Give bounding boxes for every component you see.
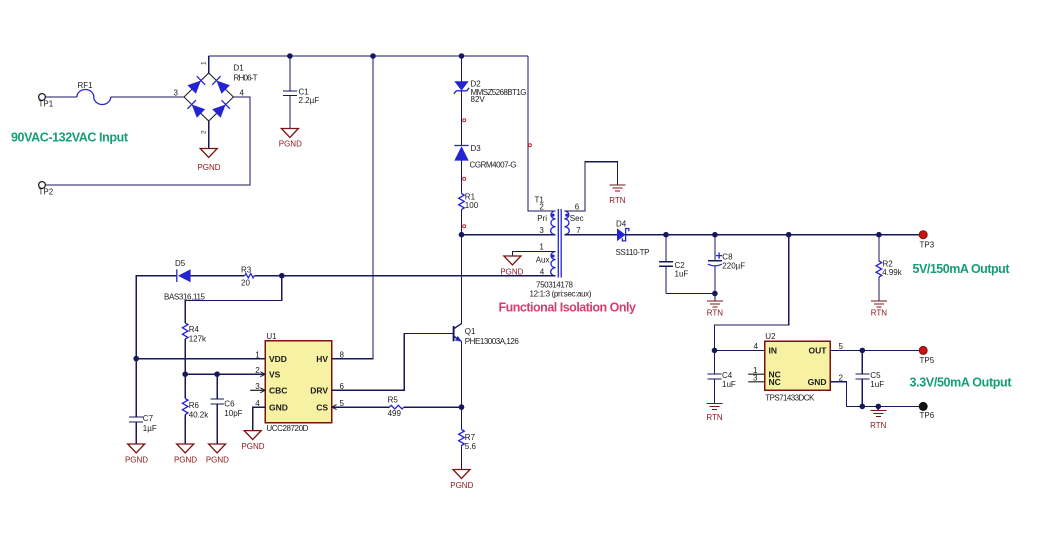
svg-text:1uF: 1uF: [870, 380, 884, 389]
wire U2 GND to TP6: [830, 382, 920, 407]
wire CS to R5: [332, 406, 390, 408]
svg-text:IN: IN: [769, 346, 778, 356]
svg-text:1µF: 1µF: [143, 424, 157, 433]
ground PGND bridge: [197, 149, 220, 173]
resistor R5: [388, 395, 404, 418]
capacitor C2: [659, 235, 688, 294]
wire bridge pin 4 to TP2: [46, 97, 250, 185]
pin NC1 stub: [748, 373, 764, 375]
svg-text:NC: NC: [769, 377, 781, 387]
capacitor C6: [210, 374, 242, 444]
svg-text:RTN: RTN: [871, 308, 888, 317]
svg-text:SS110-TP: SS110-TP: [616, 248, 650, 257]
svg-text:C7: C7: [143, 414, 154, 423]
svg-text:TP3: TP3: [920, 240, 935, 249]
wire VS node to U1: [185, 373, 265, 375]
wire bridge pin 2 to ground: [208, 121, 210, 149]
svg-text:PGND: PGND: [241, 442, 264, 451]
test point TP3: [919, 231, 935, 250]
svg-text:RTN: RTN: [870, 421, 887, 430]
regulator U2: [753, 332, 844, 402]
svg-text:PGND: PGND: [197, 163, 220, 172]
svg-text:TP2: TP2: [39, 188, 54, 197]
junction C6 top: [214, 371, 220, 377]
svg-text:82V: 82V: [471, 95, 486, 104]
svg-text:RTN: RTN: [707, 308, 724, 317]
svg-text:5.6: 5.6: [465, 442, 477, 451]
junction C4: [712, 348, 718, 354]
svg-text:PGND: PGND: [206, 455, 229, 464]
capacitor C4: [708, 350, 736, 403]
svg-text:OUT: OUT: [809, 346, 828, 356]
junction VS node: [182, 371, 188, 377]
svg-text:1: 1: [201, 61, 208, 65]
svg-text:VDD: VDD: [269, 354, 287, 364]
svg-text:Pri: Pri: [537, 214, 547, 223]
wire U1 GND pin to ground: [253, 407, 266, 431]
svg-text:2: 2: [539, 202, 544, 211]
svg-text:8: 8: [340, 351, 345, 360]
svg-text:D4: D4: [616, 220, 627, 229]
controller U1: [255, 332, 344, 433]
test point TP6: [919, 402, 935, 420]
wire HV riser: [332, 56, 373, 359]
svg-text:CGRM4007-G: CGRM4007-G: [470, 160, 517, 169]
ground RTN C8: [707, 301, 724, 317]
wire to RTN: [877, 406, 879, 410]
svg-text:2: 2: [201, 130, 208, 134]
svg-text:R4: R4: [189, 325, 200, 334]
5V rail wire: [625, 234, 920, 236]
wire primary node to T1 pin 3: [462, 234, 556, 236]
capacitor C7: [129, 359, 157, 444]
wire D3 to R1: [461, 161, 463, 194]
resistor R1: [459, 192, 479, 210]
svg-text:4: 4: [240, 89, 245, 98]
wire tap to R4: [185, 276, 282, 323]
svg-text:TP6: TP6: [920, 411, 935, 420]
junction C5 bottom: [860, 404, 866, 410]
svg-text:1: 1: [539, 242, 544, 251]
junction C5 top: [860, 348, 866, 354]
zener diode D2: [454, 79, 527, 104]
junction R2: [876, 232, 882, 238]
pin marker: [463, 177, 466, 180]
svg-text:R3: R3: [241, 266, 252, 275]
svg-text:1: 1: [255, 351, 260, 360]
resistor R6: [182, 374, 209, 444]
svg-text:PGND: PGND: [279, 140, 302, 149]
wire rail to D2: [461, 56, 463, 82]
svg-text:3: 3: [539, 226, 544, 235]
svg-text:R7: R7: [465, 433, 476, 442]
svg-text:220µF: 220µF: [722, 262, 745, 271]
svg-text:D3: D3: [471, 144, 482, 153]
junction aux divider tap: [279, 273, 285, 279]
pin CBC stub: [250, 388, 265, 393]
capacitor C1: [283, 56, 319, 129]
junction VDD node: [133, 356, 139, 362]
junction C8 top: [712, 232, 718, 238]
pin marker: [463, 119, 466, 122]
junction C2: [663, 232, 669, 238]
wire R5 to emitter node: [404, 406, 462, 408]
svg-text:12:1:3 (pri:sec:aux): 12:1:3 (pri:sec:aux): [530, 289, 592, 298]
bridge rectifier D1: [174, 61, 258, 134]
wire fuse to bridge pin 3: [111, 96, 184, 98]
ground PGND C7: [125, 444, 148, 464]
pin marker: [528, 144, 531, 147]
junction HV riser: [370, 53, 376, 59]
wire VDD node to U1: [136, 358, 265, 360]
top rail wire: [209, 55, 528, 57]
svg-text:PGND: PGND: [125, 455, 148, 464]
ground RTN secondary: [609, 185, 626, 205]
svg-text:D1: D1: [234, 64, 245, 73]
svg-text:UCC28720D: UCC28720D: [266, 424, 308, 433]
svg-text:5V/150mA Output: 5V/150mA Output: [913, 262, 1011, 276]
svg-text:C8: C8: [722, 252, 733, 261]
pin NC3 stub: [748, 381, 764, 383]
svg-text:7: 7: [576, 226, 581, 235]
svg-text:TPS71433DCK: TPS71433DCK: [765, 393, 815, 402]
svg-text:127k: 127k: [189, 335, 207, 344]
svg-text:20: 20: [241, 279, 250, 288]
pin marker: [463, 225, 466, 228]
capacitor C5: [855, 350, 884, 406]
junction snubber top: [459, 53, 465, 59]
svg-text:4: 4: [540, 267, 545, 276]
svg-text:2.2µF: 2.2µF: [299, 96, 320, 105]
ground PGND C1: [279, 129, 302, 149]
svg-text:Aux: Aux: [536, 256, 550, 265]
wire 5V rail to U2 IN: [715, 235, 789, 351]
ground PGND R7: [450, 470, 473, 491]
wire aux feedback line: [136, 276, 555, 359]
wire TP1 to fuse: [45, 96, 77, 98]
svg-text:1uF: 1uF: [722, 380, 736, 389]
test point TP1: [39, 94, 54, 109]
wire T1 pin 7 to D4: [577, 234, 618, 236]
wire DRV to Q1 base: [332, 334, 453, 391]
wire R1 to primary node: [461, 210, 463, 235]
svg-text:R6: R6: [189, 401, 200, 410]
svg-text:C6: C6: [224, 400, 235, 409]
svg-text:100: 100: [465, 201, 479, 210]
resistor R3: [241, 266, 254, 288]
svg-text:1uF: 1uF: [675, 270, 689, 279]
svg-text:PGND: PGND: [174, 455, 197, 464]
svg-text:DRV: DRV: [310, 386, 328, 396]
wire U2 OUT to TP5: [830, 349, 920, 351]
svg-text:Sec: Sec: [570, 214, 584, 223]
svg-text:750314178: 750314178: [536, 280, 574, 289]
svg-text:499: 499: [388, 409, 402, 418]
resistor R2: [876, 235, 903, 301]
svg-text:10pF: 10pF: [224, 409, 242, 418]
svg-text:90VAC-132VAC Input: 90VAC-132VAC Input: [11, 131, 129, 145]
svg-text:CBC: CBC: [269, 386, 287, 396]
capacitor C8: [708, 235, 745, 294]
junction emitter node: [459, 404, 465, 410]
wire Q1 emitter: [461, 341, 463, 407]
svg-text:RH06-T: RH06-T: [234, 74, 258, 83]
svg-text:VS: VS: [269, 369, 281, 379]
svg-text:PGND: PGND: [500, 267, 523, 276]
svg-text:C4: C4: [722, 371, 733, 380]
svg-text:RF1: RF1: [78, 81, 94, 90]
transistor Q1: [454, 324, 520, 346]
svg-text:6: 6: [575, 202, 580, 211]
svg-text:40.2k: 40.2k: [189, 411, 210, 420]
svg-text:HV: HV: [316, 354, 328, 364]
wire to RTN: [714, 294, 716, 301]
pin VS arrow: [260, 372, 265, 377]
svg-text:4.99k: 4.99k: [882, 268, 903, 277]
svg-text:3: 3: [174, 89, 179, 98]
test point TP2: [39, 182, 54, 197]
wire bridge pin 1 to top rail: [208, 56, 210, 73]
svg-text:RTN: RTN: [609, 196, 626, 205]
ground RTN R2: [871, 301, 888, 317]
diode D4: [616, 220, 650, 258]
wire T1 pin 1 to ground: [512, 252, 540, 257]
svg-text:PGND: PGND: [450, 481, 473, 490]
svg-text:Q1: Q1: [465, 327, 476, 336]
svg-text:U1: U1: [266, 332, 277, 341]
svg-text:4: 4: [754, 342, 759, 351]
wire C2 bottom to C8 bottom: [666, 293, 715, 295]
svg-text:D5: D5: [175, 259, 186, 268]
svg-text:GND: GND: [269, 402, 288, 412]
junction C1 top: [287, 53, 293, 59]
pin CS arrow: [332, 405, 337, 410]
svg-text:3.3V/50mA Output: 3.3V/50mA Output: [910, 376, 1013, 390]
transformer T1: [530, 196, 592, 299]
junction primary node: [459, 232, 465, 238]
svg-text:RTN: RTN: [706, 413, 723, 422]
ground RTN U2: [870, 411, 887, 431]
wire rail to T1 pin 2: [528, 56, 556, 211]
wire Q1 collector: [461, 235, 463, 324]
fuse RF1: [77, 81, 111, 105]
junction RTN U2: [876, 404, 882, 410]
diode D5: [164, 259, 206, 302]
junction C8 bottom: [712, 291, 718, 297]
svg-text:GND: GND: [808, 377, 827, 387]
ground PGND U1: [241, 431, 264, 451]
svg-text:CS: CS: [316, 402, 328, 412]
svg-text:U2: U2: [765, 332, 776, 341]
svg-text:Functional Isolation Only: Functional Isolation Only: [499, 301, 637, 315]
diode D3: [454, 144, 516, 169]
svg-text:TP1: TP1: [39, 100, 54, 109]
svg-text:2: 2: [255, 366, 260, 375]
svg-text:R5: R5: [388, 395, 399, 404]
ground PGND C6: [206, 444, 229, 464]
svg-text:C5: C5: [870, 371, 881, 380]
svg-text:TP5: TP5: [920, 356, 935, 365]
resistor R4: [182, 323, 207, 374]
ground RTN C4: [706, 404, 723, 423]
wire T1 pin 6 to RTN: [564, 162, 617, 211]
svg-text:D2: D2: [471, 79, 482, 88]
ground PGND R6: [174, 444, 197, 464]
wire D2 to D3: [461, 91, 463, 146]
junction U2 branch: [786, 232, 792, 238]
resistor R7: [459, 407, 477, 469]
test point TP5: [919, 346, 935, 365]
svg-text:PHE13003A,126: PHE13003A,126: [465, 337, 520, 346]
ground PGND aux: [500, 256, 523, 276]
